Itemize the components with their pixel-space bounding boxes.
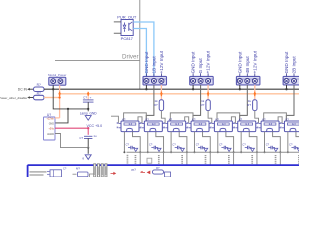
gray rail wire GND return — [127, 151, 300, 153]
junction GND node — [67, 108, 69, 110]
wire J2 pin2 signal down — [193, 85, 201, 121]
svg-text:R?: R? — [154, 103, 158, 107]
svg-text:+5Vo: +5Vo — [48, 128, 54, 131]
wire J2 pin3 +12V down — [207, 85, 209, 100]
net label text below rail K3 — [181, 155, 183, 156]
capacitor C_K2 with ground — [149, 142, 161, 151]
wire U2 pin4 AGND — [55, 134, 88, 148]
svg-text:+12Vin: +12Vin — [47, 117, 55, 120]
svg-text:GND Input: GND Input — [144, 51, 149, 73]
relay cell K3 — [165, 121, 188, 132]
connector J3 — [236, 73, 260, 85]
svg-text:K?: K? — [262, 117, 266, 121]
Driver sheet frame line (vertical) — [139, 0, 141, 89]
svg-text:C?: C? — [83, 95, 87, 99]
capacitor C_K7 with ground — [266, 142, 278, 151]
wire K7 pin down left — [264, 132, 266, 153]
connector J2 — [190, 73, 214, 85]
junction black bus at J5 — [52, 88, 54, 90]
svg-text:1B Input: 1B Input — [151, 56, 156, 74]
capacitor C_K4 with ground — [196, 142, 208, 151]
wire bridge lower 5-6 — [231, 117, 235, 124]
wire K3 pin down left — [170, 132, 172, 153]
wire resistor R1k_2 output — [208, 111, 212, 124]
wire cyan opto collector to J1 pin2 — [133, 22, 154, 76]
wire bridge over cells 1-2 — [124, 113, 147, 121]
svg-text:GND Input: GND Input — [191, 51, 196, 73]
sheet border bottom section — [28, 164, 300, 166]
net label text below rail K4 — [205, 155, 207, 156]
capacitor C_K3 with ground — [172, 142, 184, 151]
svg-text:Driver: Driver — [122, 54, 139, 61]
wire K2 to output bus — [163, 152, 165, 164]
svg-text:+12V Input: +12V Input — [252, 50, 257, 73]
via box below rail — [147, 158, 152, 163]
wire J5 pin1 to black bus — [52, 85, 54, 89]
svg-text:GND: GND — [49, 122, 55, 125]
svg-text:K?: K? — [215, 117, 219, 121]
capacitor C_K1 with ground — [126, 142, 138, 151]
wire C2 to ground — [87, 138, 89, 147]
wire K5 pin down left — [217, 132, 219, 153]
capacitor C_K8 with ground — [289, 142, 301, 151]
svg-text:PUR_OUT: PUR_OUT — [117, 15, 137, 20]
svg-text:+12V Input: +12V Input — [159, 50, 164, 73]
svg-text:K?: K? — [192, 117, 196, 121]
wire bridge lower 1-2 — [138, 117, 142, 124]
connector J4 — [283, 73, 307, 85]
svg-text:M?: M? — [76, 167, 80, 171]
wire K7 pin down right — [273, 132, 281, 153]
relay cell K6 — [235, 121, 258, 132]
component bottom right of resistor — [165, 172, 171, 177]
wire K1 to output bus — [139, 152, 141, 164]
resistor bottom section — [153, 170, 164, 174]
svg-text:R?: R? — [156, 166, 160, 170]
svg-text:K?: K? — [239, 117, 243, 121]
opto-coupler U1 — [121, 20, 133, 36]
black bus wire +DC — [44, 88, 299, 90]
svg-text:4B Input: 4B Input — [245, 56, 250, 74]
wire C1 to GND — [87, 102, 89, 109]
pin header pins below border — [94, 164, 96, 177]
wire orange vertical J5 pin2 down to U2 — [59, 85, 61, 118]
svg-text:C?: C? — [63, 166, 67, 170]
svg-text:1u: 1u — [93, 134, 97, 138]
bottom section tiny text — [30, 171, 47, 172]
wire J4 pin1 to black bus — [286, 85, 288, 89]
relay cell K7 — [259, 121, 282, 132]
wire cyan opto emitter to J1 pin1 — [133, 29, 146, 77]
capacitor C_K5 with ground — [219, 142, 231, 151]
net label text below rail K1 — [135, 155, 137, 156]
capacitor C1 — [87, 94, 89, 100]
svg-text:C?: C? — [219, 142, 223, 146]
wire J1 pin2 signal down — [146, 85, 154, 121]
wire K6 pin down right — [249, 132, 257, 153]
resistor R1 — [34, 87, 45, 92]
resistor R1k_3 — [253, 100, 257, 111]
wire J2 pin1 to black bus — [192, 85, 194, 89]
svg-text:R?: R? — [247, 103, 251, 107]
svg-text:G Input: G Input — [198, 58, 203, 74]
svg-text:C?: C? — [196, 142, 200, 146]
red net arrows bottom — [111, 172, 116, 174]
svg-text:K?: K? — [169, 117, 173, 121]
wire K8 to output bus — [303, 152, 305, 164]
wire bridge over cells 7-8 — [264, 113, 287, 121]
wire bridge over cells 5-6 — [217, 113, 240, 121]
wire opto pin2 stub — [114, 32, 121, 34]
wire K4 pin down left — [193, 132, 195, 153]
svg-text:Power_other_disable: Power_other_disable — [0, 96, 27, 100]
wire K4 to output bus — [209, 152, 211, 164]
wire K8 pin down right — [296, 132, 304, 153]
connector J5 Modul_Power — [49, 77, 66, 85]
wire K8 pin down left — [287, 132, 289, 153]
wire K2 pin down left — [147, 132, 149, 153]
svg-text:GND Input: GND Input — [237, 51, 242, 73]
svg-text:DC IN: DC IN — [18, 88, 28, 92]
wire R2 to orange vertical — [44, 97, 60, 99]
wire orange into U2 pin1 — [55, 117, 60, 119]
wire K1 pin down right — [133, 132, 141, 153]
resistor R1k_1 — [159, 100, 163, 111]
svg-text:C?: C? — [172, 142, 176, 146]
wire K6 pin down left — [240, 132, 242, 153]
wire stub to cell1 left pin — [111, 116, 118, 123]
junction orange bus — [58, 93, 60, 95]
wire bridge over cells 3-4 — [170, 113, 193, 121]
wire to U2 GND pin — [55, 109, 68, 123]
net label text below rail K8 — [298, 155, 300, 156]
orange bus wire +12V — [60, 93, 299, 95]
relay cell K2 — [142, 121, 165, 132]
svg-text:R?: R? — [200, 103, 204, 107]
wire DC_IN to R1 — [30, 88, 34, 90]
wire resistor R1k_1 output — [161, 111, 165, 124]
svg-text:PC817: PC817 — [121, 36, 134, 41]
wire opto pin1 stub — [114, 21, 121, 23]
wire bridge lower 7-8 — [278, 117, 282, 124]
Driver sheet frame line (horizontal) — [55, 59, 140, 61]
svg-text:C?: C? — [266, 142, 270, 146]
svg-text:Modul_Power: Modul_Power — [48, 73, 66, 77]
net label text below rail K6 — [251, 155, 253, 156]
net label text below rail K2 — [158, 155, 160, 156]
wire bridge lower 3-4 — [185, 117, 189, 124]
bright orange segments at bus junctions — [160, 92, 162, 97]
capacitor C2 — [87, 128, 89, 135]
wire to R2 — [30, 97, 34, 99]
svg-text:GND Input: GND Input — [284, 51, 289, 73]
svg-text:+: + — [90, 95, 92, 99]
wire K5 to output bus — [233, 152, 235, 164]
wire J3 pin1 to black bus — [239, 85, 241, 89]
wire K5 pin down right — [226, 132, 234, 153]
capacitor C_K6 with ground — [242, 142, 254, 151]
resistor R2 — [34, 95, 45, 100]
svg-text:C?: C? — [126, 142, 130, 146]
svg-text:AGND: AGND — [47, 133, 54, 136]
svg-text:K?: K? — [285, 117, 289, 121]
wire pink VCC from U2 pin3 — [55, 127, 88, 129]
wire J3 pin2 signal down — [240, 85, 248, 121]
wire J3 pin3 +12V down — [254, 85, 256, 100]
net label text smudge cell1 — [127, 155, 129, 156]
wire J1 pin3 +12V down — [160, 85, 162, 100]
svg-text:Lamp_GND: Lamp_GND — [80, 111, 98, 115]
regulator U2 — [44, 117, 56, 140]
svg-text:K?: K? — [145, 117, 149, 121]
svg-text:2B Input: 2B Input — [292, 56, 297, 74]
svg-text:C?: C? — [149, 142, 153, 146]
wire J4 pin2 signal down — [286, 85, 294, 121]
relay cell K5 — [212, 121, 235, 132]
wire K7 to output bus — [279, 152, 281, 164]
svg-text:C?: C? — [79, 136, 83, 140]
relay cell K4 — [189, 121, 212, 132]
wire K3 pin down right — [179, 132, 187, 153]
wire black bus left branch down — [53, 89, 88, 109]
svg-text:+12V Input: +12V Input — [206, 50, 211, 73]
svg-text:m?: m? — [132, 168, 137, 172]
wire K1 pin down left — [123, 132, 125, 153]
wire J1 pin1 to black bus — [145, 85, 147, 89]
wire stub from pin header — [90, 174, 94, 177]
resistor R1k_2 — [206, 100, 210, 111]
svg-text:R?: R? — [37, 92, 41, 96]
wire K2 pin down right — [156, 132, 164, 153]
connector J1 — [143, 73, 167, 85]
junction VCC node — [87, 127, 89, 129]
relay cell K8 — [282, 121, 305, 132]
svg-text:C?: C? — [289, 142, 293, 146]
svg-text:R?: R? — [37, 83, 41, 87]
svg-text:C?: C? — [242, 142, 246, 146]
wire K4 pin down right — [203, 132, 211, 153]
svg-text:K?: K? — [122, 117, 126, 121]
net label text below rail K7 — [275, 155, 277, 156]
wire resistor R1k_3 output — [255, 111, 259, 124]
wire K3 to output bus — [186, 152, 188, 164]
wire K6 to output bus — [256, 152, 258, 164]
relay cell K1 — [119, 121, 142, 132]
net label text below rail K5 — [228, 155, 230, 156]
component JP below border — [50, 170, 62, 177]
